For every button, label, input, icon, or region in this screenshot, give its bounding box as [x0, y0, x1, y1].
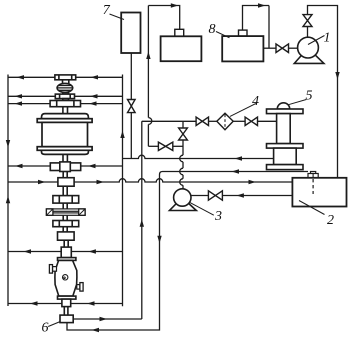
- svg-text:2: 2: [327, 213, 334, 228]
- svg-text:7: 7: [103, 3, 111, 18]
- svg-text:3: 3: [214, 209, 222, 224]
- svg-text:1: 1: [324, 30, 331, 45]
- svg-text:8: 8: [209, 22, 216, 37]
- svg-text:4: 4: [252, 94, 259, 109]
- svg-text:6: 6: [42, 320, 49, 335]
- svg-text:5: 5: [306, 89, 313, 104]
